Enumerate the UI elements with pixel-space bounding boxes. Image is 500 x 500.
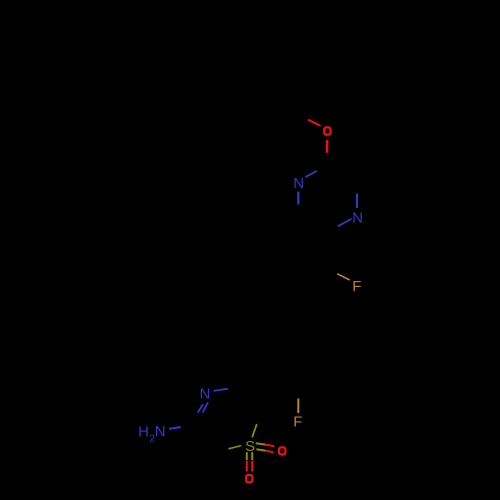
wire: bond S1-C(ring up), S half [252, 424, 257, 437]
wire: bond O1-C2(pyrazine), O half [326, 140, 328, 153]
wire: double bond N3=C(amidine) line 2, N half [198, 404, 203, 413]
node H2N (amino group label) [138, 423, 165, 445]
wire: bond N1-C2(pyrazine), N half [305, 171, 317, 177]
svg-text:F: F [293, 414, 302, 431]
svg-text:N: N [155, 423, 166, 440]
svg-text:N: N [352, 210, 363, 227]
node O2 (sulfone oxygen right label) [279, 447, 285, 454]
svg-text:F: F [352, 278, 361, 295]
wire: double bond S1=O3 line 2, O half [251, 461, 253, 472]
wire: bond N4-C3(pyrazine), N half [356, 194, 358, 209]
wire: double bond N3=C(amidine) line 1, N half [203, 402, 208, 412]
wire: double bond S1=O3 line 1, S half [246, 452, 248, 460]
svg-text:N: N [293, 175, 304, 192]
wire: bond S1-C(ring left), S half [228, 446, 241, 449]
wire: bond F2-C(ring), F half [297, 399, 299, 414]
wire: double bond S1=O3 line 1, O half [246, 461, 248, 472]
node O1 (ether oxygen label) [324, 127, 330, 134]
wire: double bond S1=O2 line 1, S half [256, 443, 266, 444]
wire: double bond S1=O2 line 2, S half [256, 449, 265, 450]
wire: bond N3-C(ring), N half [213, 389, 228, 391]
wire: bond N1-C6(pyrazine), N half [297, 192, 299, 205]
wire: bond O1-CH2(benzyl), O half [308, 120, 320, 126]
wire: double bond S1=O3 line 2, S half [251, 452, 253, 460]
svg-text:H: H [138, 423, 149, 440]
svg-text:N: N [199, 386, 210, 403]
wire: double bond S1=O2 line 1, O half [265, 445, 274, 447]
wire: bond H2N-C(amidine), N half [169, 427, 181, 429]
wire: double bond S1=O2 line 2, O half [265, 451, 273, 453]
wire: bond N4-C5(pyrazine), N half [338, 219, 352, 227]
wire: bond F1-CH, F half [337, 274, 350, 280]
node O3 (sulfone oxygen bottom label) [246, 475, 252, 482]
